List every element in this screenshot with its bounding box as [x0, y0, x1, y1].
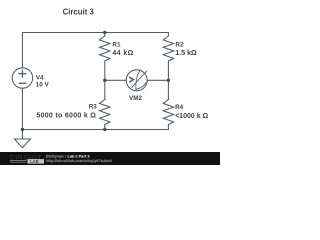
svg-text:5000 to 6000 k Ω: 5000 to 6000 k Ω — [36, 113, 96, 120]
svg-text:44 kΩ: 44 kΩ — [112, 50, 133, 57]
svg-text:1.5 kΩ: 1.5 kΩ — [175, 50, 197, 57]
svg-text:10 V: 10 V — [36, 81, 50, 88]
footer CircuitLab logo — [10, 154, 44, 164]
svg-text:<1000 k Ω: <1000 k Ω — [175, 113, 208, 120]
wire voltmeter right — [147, 79, 168, 81]
svg-text:http://circuitlab.com/c/6q2y67: http://circuitlab.com/c/6q2y67uzkn6 — [46, 159, 112, 163]
ground — [14, 139, 30, 148]
wire voltmeter left — [105, 79, 126, 81]
wire left rail lower — [21, 88, 23, 139]
svg-text:R1: R1 — [112, 42, 121, 49]
voltmeter VM2 — [126, 70, 147, 91]
svg-text:VM2: VM2 — [129, 95, 142, 102]
resistor R1 — [100, 36, 110, 61]
svg-text:LAB: LAB — [30, 159, 39, 164]
svg-text:R4: R4 — [175, 104, 184, 111]
footer bar — [0, 152, 220, 165]
wire left rail upper — [21, 33, 23, 68]
resistor R2 — [163, 36, 173, 61]
wire top — [22, 32, 168, 34]
wire middle rail segments — [104, 33, 106, 130]
svg-text:R2: R2 — [175, 42, 184, 49]
voltage source V4 — [12, 68, 32, 88]
resistor R4 — [163, 100, 173, 125]
resistor R3 — [100, 100, 110, 125]
svg-text:Emilyvan / Lab 2 Part 3: Emilyvan / Lab 2 Part 3 — [46, 154, 90, 159]
junction node dots — [21, 31, 170, 131]
wire right rail segments — [167, 33, 169, 130]
svg-text:R3: R3 — [89, 104, 98, 111]
wire bottom — [22, 129, 168, 131]
svg-text:Circuit 3: Circuit 3 — [63, 8, 95, 17]
